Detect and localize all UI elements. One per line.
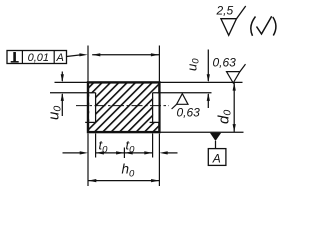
t0 dimension left tail arrow bbox=[63, 152, 81, 154]
t0 second span bbox=[124, 152, 152, 154]
d0 dimension line with arrows bbox=[233, 82, 235, 132]
left u0 label bbox=[46, 106, 64, 120]
extension below left channel edge bbox=[95, 134, 97, 158]
top edge extension left bbox=[55, 81, 90, 83]
left channel inner edge bbox=[95, 93, 97, 123]
bottom edge extension right bbox=[159, 131, 244, 133]
center tick for t0 bbox=[123, 148, 125, 159]
h0 dimension line bbox=[88, 180, 159, 182]
datum stem bbox=[215, 141, 217, 149]
extension below left outer edge bbox=[87, 134, 89, 187]
roughness 0,63 middle: triangle with flag bbox=[177, 94, 188, 105]
extension below right outer edge bbox=[158, 134, 160, 187]
tolerance frame box bbox=[7, 51, 67, 64]
right channel inner edge bbox=[152, 93, 154, 123]
right u0 label bbox=[185, 58, 202, 71]
d0 label bbox=[216, 110, 234, 124]
section outer contour bbox=[88, 82, 159, 132]
top edge extension right bbox=[159, 81, 243, 83]
svg-text:0,63: 0,63 bbox=[213, 56, 237, 70]
leader from frame to left extension bbox=[67, 55, 81, 57]
section body hatching bbox=[89, 83, 158, 131]
roughness 0,63 top right: triangle with flag bbox=[227, 72, 240, 83]
extension line above left corner bbox=[87, 46, 89, 83]
left channel top line (extends left for u0) bbox=[50, 92, 96, 94]
top dimension line double arrow bbox=[92, 54, 159, 56]
svg-text:A: A bbox=[56, 52, 64, 64]
general roughness triangle with flag bbox=[221, 19, 237, 36]
right channel bottom line bbox=[150, 121, 160, 123]
svg-text:2,5: 2,5 bbox=[216, 4, 234, 18]
t0 dimension right tail arrow bbox=[167, 152, 178, 154]
perpendicularity symbol bbox=[13, 52, 16, 62]
left u0 dimension upper stem and arrow bbox=[61, 72, 63, 82]
right u0 dimension lower stem and arrow bbox=[207, 94, 209, 108]
parenthesis left bbox=[251, 17, 256, 36]
check mark bbox=[257, 16, 272, 34]
t0 first span bbox=[96, 152, 125, 154]
right gap channel (white) bbox=[153, 93, 158, 122]
svg-text:A: A bbox=[212, 152, 221, 166]
centerline (dash-dot axis) bbox=[76, 105, 169, 107]
svg-text:0,01: 0,01 bbox=[28, 52, 49, 64]
right u0 dimension upper stem and arrow bbox=[207, 50, 209, 82]
left channel bottom line bbox=[85, 121, 96, 123]
svg-text:0,63: 0,63 bbox=[177, 106, 201, 120]
left u0 dimension lower stem and arrow bbox=[61, 94, 63, 116]
datum box A bbox=[208, 149, 226, 166]
extension line above right corner bbox=[158, 46, 160, 83]
right channel top line (extends right for u0) bbox=[153, 92, 212, 94]
extension below right channel edge bbox=[152, 134, 154, 158]
left gap channel (white) bbox=[89, 93, 95, 122]
parenthesis right bbox=[273, 17, 276, 36]
datum triangle (filled) bbox=[210, 133, 221, 141]
